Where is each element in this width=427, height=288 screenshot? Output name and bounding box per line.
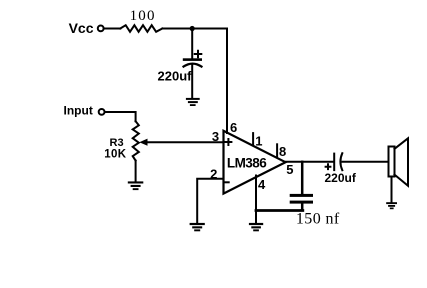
svg-text:6: 6 — [230, 120, 237, 135]
svg-text:2: 2 — [210, 166, 217, 181]
svg-text:220uf: 220uf — [158, 69, 193, 84]
svg-text:100: 100 — [130, 8, 156, 24]
svg-text:10K: 10K — [104, 148, 127, 160]
svg-text:3: 3 — [212, 129, 219, 144]
svg-text:Vcc: Vcc — [69, 20, 94, 36]
svg-text:220uf: 220uf — [325, 171, 357, 185]
svg-text:LM386: LM386 — [227, 155, 267, 170]
svg-text:4: 4 — [258, 177, 266, 192]
svg-text:8: 8 — [279, 144, 286, 159]
svg-text:Input: Input — [64, 103, 93, 117]
svg-text:1: 1 — [255, 134, 262, 149]
svg-text:5: 5 — [286, 162, 293, 177]
svg-text:150 nf: 150 nf — [296, 210, 340, 227]
svg-text:R3: R3 — [110, 137, 124, 149]
